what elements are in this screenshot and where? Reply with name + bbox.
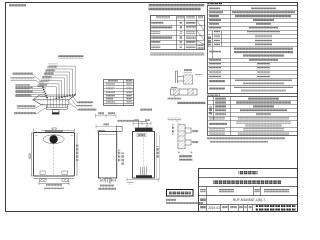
upper bracket front view bar: [171, 89, 198, 95]
upper bracket bar dim: [171, 86, 178, 88]
capacity table label column line: [214, 97, 231, 136]
upper bracket detail view: [176, 71, 193, 84]
front view louver ellipse: [43, 135, 64, 144]
svg-text:RUF-M1605AT-L(B)-T: RUF-M1605AT-L(B)-T: [233, 198, 265, 202]
torque table row6 cells: [151, 46, 160, 48]
side view top small label: [140, 108, 152, 110]
rear view bottom dim line: [127, 178, 159, 182]
ladder arrowheads: [42, 86, 48, 98]
connection diagram staircase leader lines: [38, 66, 76, 97]
upper bracket label: [178, 102, 206, 105]
spec notes line 1: [207, 137, 285, 139]
front view exhaust circle: [49, 135, 57, 143]
front view right top label: [98, 129, 106, 131]
capacity table row lines: [208, 101, 298, 132]
spec table title: [207, 3, 222, 6]
connection diagram staircase labels: [38, 64, 58, 87]
upper bracket hatch: [184, 75, 193, 84]
rear view inner label box: [137, 134, 146, 137]
unit front face stub lines: [48, 96, 66, 107]
title block row lines: [199, 178, 298, 205]
company name: [256, 205, 296, 211]
unit top-view top face: [33, 95, 75, 100]
svg-text:2019.03: 2019.03: [208, 206, 220, 210]
side view feet: [100, 178, 104, 181]
capacity table label blobs: [215, 97, 226, 99]
size table cell blobs: [105, 80, 133, 106]
flue duct below unit: [53, 110, 60, 113]
front view feet: [39, 179, 46, 182]
torque table outline: [151, 16, 205, 50]
ladder lines: [16, 86, 47, 96]
front view bottom dimension: [39, 182, 69, 185]
reference stamp text: [169, 192, 191, 195]
front view corner marks: [35, 135, 73, 137]
torque table row1 cells: [151, 21, 163, 23]
rear view right rotated dim text: [157, 146, 159, 158]
torque note line: [151, 53, 205, 56]
capacity table value blobs: [248, 97, 279, 99]
torque table row2 cells: [151, 26, 172, 28]
inter-view rotated dim texts: [118, 150, 121, 163]
front view centerline: [53, 144, 55, 176]
lower bracket dims: [172, 125, 174, 135]
approval note marks: [178, 151, 180, 153]
side view bottom label row2: [98, 188, 116, 190]
capacity table title: [207, 93, 220, 96]
side view bottom labels: [100, 185, 114, 187]
front view right dimension 605: [76, 133, 78, 176]
unit top-view front face: [33, 100, 69, 105]
ladder leader lines with labels: [16, 84, 33, 96]
front view bottom band: [34, 176, 75, 179]
capacity table outline: [208, 97, 298, 136]
upper bracket hole callout: [167, 97, 181, 99]
torque table row4 cells: [151, 36, 172, 38]
unit bottom band: [46, 105, 67, 110]
rear view top dim ticks: [133, 122, 151, 126]
spec table 1 label column line: [213, 6, 231, 94]
left label: furo return port: [13, 72, 33, 75]
upper bracket bar hatch segments: [174, 89, 179, 95]
lower bracket label line1: [179, 155, 192, 158]
rear view top bracket outline: [138, 122, 147, 128]
side view inner top line: [99, 134, 117, 136]
reference stamp box: [167, 190, 194, 197]
front view body: [34, 133, 75, 177]
units label (単位:mm): [9, 4, 26, 7]
front view lower small rects: [40, 171, 45, 174]
front view top dimension 470: [34, 129, 75, 133]
side view upper dim chain: [96, 114, 117, 118]
drawing border frame: [6, 3, 298, 212]
unit top-view inner edge: [40, 95, 73, 97]
rear view body: [133, 132, 155, 179]
front view left dimension 600: [31, 133, 33, 176]
rear view bottom small label: [128, 182, 134, 184]
left label: pump port: [11, 77, 35, 80]
rear view bottom bracket dark bar: [136, 175, 152, 178]
rear view bottom pipe lines: [141, 167, 147, 175]
spec notes line 2: [210, 140, 268, 142]
stamp note line 1: [166, 199, 176, 201]
title block outline: [199, 169, 298, 212]
right labels of connection diagram: [77, 100, 93, 102]
size table row lines: [104, 83, 134, 104]
title row4: model number: [200, 198, 206, 201]
size table column line: [123, 80, 125, 106]
top note text line 1: [149, 4, 205, 7]
lower bracket hole callout: [167, 118, 181, 120]
torque table diagonal (remarks col): [197, 21, 205, 45]
stamp note line 2: [166, 202, 203, 204]
torque table header cells: [156, 16, 170, 18]
title row5: date and company: [200, 206, 206, 209]
title row3 labels: [200, 189, 206, 192]
rear view right extension lines: [157, 133, 160, 180]
mounting hole callout label: [118, 120, 140, 122]
title row1: housing use: [239, 171, 258, 175]
spec table 1 row lines: [208, 11, 298, 86]
torque table row3 cells: [151, 31, 160, 33]
lower bracket hatch: [178, 125, 185, 149]
spec table 1 value blobs: [251, 7, 276, 9]
side view lower dim chain: [96, 125, 117, 129]
flue flange dark bar: [52, 113, 59, 115]
connection diagram title: [58, 55, 83, 58]
torque table row lines: [151, 21, 205, 45]
title block column lines: [207, 187, 261, 212]
title row2: product description: [213, 180, 281, 184]
staircase arrowheads on unit: [55, 93, 76, 99]
svg-text:600: 600: [28, 153, 32, 159]
rear view centerline: [142, 138, 144, 176]
side view bottom pipes: [106, 178, 111, 184]
front view top inner label: [45, 130, 63, 132]
upper bracket dims: [184, 69, 192, 71]
top note text line 2: [149, 8, 201, 11]
bottom-left labels of connection diagram: [17, 105, 36, 108]
size table outline: [104, 80, 134, 106]
side view duct: [117, 127, 122, 132]
torque table row5 cells: [151, 41, 160, 43]
side view body: [99, 132, 117, 179]
lower bracket detail view: [178, 125, 191, 149]
spec table 1 outline: [208, 6, 298, 94]
torque table column lines: [177, 16, 197, 50]
spec table 1 label blobs: [209, 7, 220, 9]
lower bracket label line2: [179, 158, 193, 161]
rear view top bracket dark bar: [135, 128, 153, 132]
